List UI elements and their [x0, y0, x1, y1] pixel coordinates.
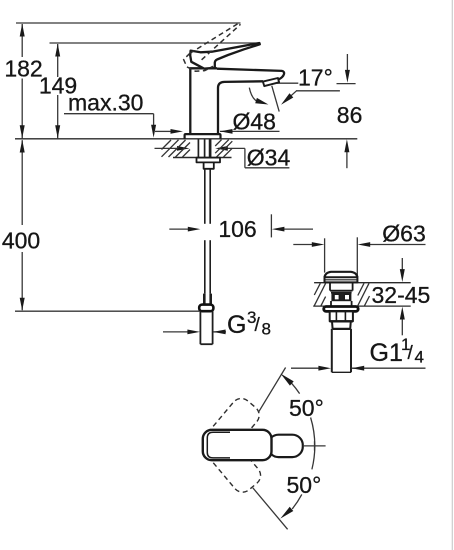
dimension 182 [21, 24, 23, 138]
supply hose lower segment [205, 240, 210, 293]
drain body window section [331, 293, 351, 302]
svg-text:17°: 17° [298, 65, 333, 91]
shank washer below deck [197, 158, 221, 163]
dimension max.30 [64, 114, 154, 125]
deck hatching left [162, 140, 191, 157]
svg-text:106: 106 [218, 216, 256, 242]
drain body lower band [331, 301, 352, 306]
aerator outlet [263, 78, 279, 86]
svg-text:8: 8 [262, 320, 271, 339]
G3/8 connector tube [200, 311, 212, 344]
dimension 32-45 (counter thickness) [401, 258, 403, 335]
stream swing arc arrow [249, 88, 257, 102]
svg-text:Ø34: Ø34 [247, 144, 291, 170]
dimension 86 (spout height) [346, 54, 349, 168]
drain counter hatching left [314, 283, 325, 305]
svg-text:G: G [227, 311, 246, 339]
hose end fitting [204, 294, 210, 305]
wire: hose-end reference line (400 level) [15, 310, 199, 312]
svg-text:G1: G1 [370, 339, 403, 367]
stream direction line [272, 86, 279, 112]
dimension 400 [21, 140, 23, 310]
drain counter top line [314, 282, 411, 284]
50° swing radial line upper [259, 368, 286, 413]
wire: handle-top reference line (149 level) [50, 42, 260, 44]
handle top view: grip body [203, 430, 272, 460]
base flange [185, 134, 221, 139]
dimension 149 [57, 44, 59, 138]
handle top view: grip inner cap line [207, 432, 230, 458]
supply hose upper segment [205, 169, 210, 224]
drain taper collar [332, 321, 351, 329]
dimension G3/8 [163, 331, 226, 333]
dimension Ø34 (deck hole) [155, 148, 290, 167]
drain counter bottom line [313, 305, 411, 307]
wire: top reference line (182 level) [16, 22, 241, 24]
svg-text:/: / [408, 343, 414, 364]
handle top view: rotated position lower (dashed) [197, 424, 264, 496]
dimension 17° (spray angle) [277, 83, 356, 96]
wire: deck / mounting surface line [15, 138, 357, 140]
svg-text:86: 86 [337, 102, 363, 128]
handle top view: neck [268, 435, 303, 457]
dimension Ø63 (drain flange) [293, 237, 425, 277]
svg-text:50°: 50° [289, 395, 324, 421]
shank nut [204, 162, 214, 168]
dimension Ø48 (base) [155, 130, 280, 132]
compression nut [199, 305, 213, 312]
deck hatching right [215, 140, 232, 157]
svg-text:182: 182 [4, 56, 42, 82]
deck underside line [173, 157, 232, 159]
svg-text:32-45: 32-45 [372, 282, 431, 308]
faucet body left edge [189, 68, 191, 134]
svg-text:400: 400 [2, 228, 40, 254]
spout top edge and nose [217, 69, 284, 80]
drain body upper band [330, 283, 353, 293]
dimension G1 1/4 [291, 367, 426, 369]
handle (solid, side view) [190, 43, 260, 69]
svg-text:Ø48: Ø48 [233, 109, 276, 135]
50° arc upper [292, 383, 315, 446]
drain counter hatching right [358, 283, 370, 305]
svg-text:4: 4 [415, 348, 424, 367]
page right border [451, 0, 453, 550]
faucet body right edge and spout underside [218, 81, 263, 134]
drain locknut washer [324, 307, 359, 312]
svg-text:/: / [255, 315, 261, 336]
handle top view: center line and tick [303, 445, 326, 447]
50° arc lower [292, 446, 315, 509]
svg-text:50°: 50° [287, 472, 322, 498]
50° swing radial line lower [253, 488, 288, 530]
drain threaded tube G1 1/4 [332, 329, 351, 372]
drain cap rim [325, 277, 358, 282]
svg-text:max.30: max.30 [68, 90, 143, 116]
faucet body top edge [189, 67, 217, 69]
dimension 106 (pipe to drain) [169, 214, 313, 237]
svg-text:Ø63: Ø63 [382, 221, 425, 247]
mounting shank through deck [198, 140, 210, 163]
handle raised position (dashed) [184, 23, 241, 71]
drain cap dome [325, 272, 358, 277]
handle top view: rotated position upper (dashed) [196, 394, 263, 466]
drain hex nut [330, 311, 353, 321]
